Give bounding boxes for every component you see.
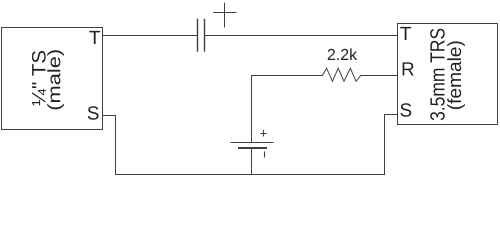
battery BT1 minus label [264,152,266,157]
capacitor C1 polarity plus [214,3,236,27]
label T right box pin [400,27,411,40]
wire right S to bottom rail [385,115,398,175]
label T left box pin [89,31,100,44]
value label 2.2k [328,48,358,60]
label R right box pin [403,62,414,75]
wire battery to bottom rail [251,149,253,175]
label S left box pin [88,106,99,120]
label S right box pin [400,103,411,117]
battery BT1 negative plate [239,147,266,149]
connector J2 3.5mm TRS female box [398,24,498,125]
wire left S to bottom rail [103,116,116,175]
battery BT1 positive plate [231,142,273,144]
battery BT1 plus label [261,131,266,137]
capacitor C1 left plate [197,20,199,52]
label male line2 [47,50,64,109]
label 3.5mm TRS line1 [430,29,445,121]
resistor R1 2.2k zigzag [252,68,398,81]
connector J1 1/4in TS male box [2,28,103,130]
capacitor C1 right plate [204,20,206,52]
label female line2 [447,41,465,109]
wire resistor junction down to battery [251,76,253,143]
wire bottom rail [116,174,385,176]
label 1/4in TS line1 [32,51,46,106]
wire left T to capacitor [103,35,198,37]
wire capacitor to right T [205,35,398,37]
